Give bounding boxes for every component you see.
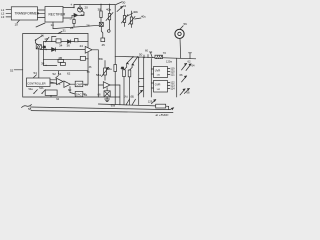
svg-text:10: 10 bbox=[15, 22, 19, 26]
svg-text:DAC: DAC bbox=[76, 93, 82, 97]
svg-text:62: 62 bbox=[67, 72, 71, 76]
svg-text:120a: 120a bbox=[166, 60, 172, 64]
svg-text:44: 44 bbox=[80, 44, 84, 48]
svg-text:(B): (B) bbox=[131, 94, 135, 98]
svg-text:68: 68 bbox=[187, 91, 190, 95]
svg-text:28: 28 bbox=[70, 26, 74, 30]
svg-text:RECTIFIER: RECTIFIER bbox=[49, 13, 67, 17]
svg-text:L3: L3 bbox=[1, 15, 5, 19]
svg-text:54: 54 bbox=[34, 71, 38, 75]
svg-text:54b: 54b bbox=[39, 87, 44, 90]
svg-text:124: 124 bbox=[171, 88, 176, 91]
svg-text:69a: 69a bbox=[111, 105, 116, 108]
svg-text:38: 38 bbox=[98, 8, 102, 12]
svg-text:54: 54 bbox=[58, 72, 62, 76]
svg-text:121: 121 bbox=[171, 74, 176, 77]
svg-text:18: 18 bbox=[44, 37, 48, 41]
svg-text:–: – bbox=[70, 17, 72, 21]
svg-text:45: 45 bbox=[102, 43, 106, 47]
svg-text:OVR: OVR bbox=[155, 83, 161, 87]
svg-text:56: 56 bbox=[184, 22, 188, 26]
svg-text:22: 22 bbox=[81, 13, 85, 17]
svg-text:62: 62 bbox=[149, 50, 152, 54]
svg-text:31: 31 bbox=[63, 29, 67, 33]
svg-text:38: 38 bbox=[41, 62, 45, 66]
svg-text:UVR: UVR bbox=[155, 69, 161, 73]
svg-text:36: 36 bbox=[67, 44, 71, 48]
svg-text:CMP: CMP bbox=[76, 83, 82, 87]
svg-text:34: 34 bbox=[59, 44, 63, 48]
svg-text:4B: 4B bbox=[58, 56, 62, 60]
svg-text:58: 58 bbox=[87, 71, 90, 74]
svg-text:at +5VDC: at +5VDC bbox=[156, 113, 170, 117]
svg-text:62: 62 bbox=[188, 60, 191, 64]
svg-text:64: 64 bbox=[192, 64, 195, 68]
svg-text:52: 52 bbox=[10, 68, 14, 72]
svg-text:52: 52 bbox=[53, 72, 57, 76]
svg-text:+: + bbox=[70, 3, 72, 7]
svg-text:20: 20 bbox=[85, 6, 89, 10]
svg-text:66: 66 bbox=[180, 73, 183, 77]
svg-text:58a: 58a bbox=[96, 73, 101, 77]
svg-text:40b: 40b bbox=[133, 10, 138, 14]
svg-text:59: 59 bbox=[85, 83, 89, 87]
svg-text:14: 14 bbox=[51, 23, 55, 27]
svg-text:36: 36 bbox=[89, 66, 92, 69]
svg-text:40a: 40a bbox=[106, 8, 111, 12]
svg-text:TRANSFORMER: TRANSFORMER bbox=[15, 11, 40, 15]
svg-text:60: 60 bbox=[145, 48, 148, 52]
svg-text:48a: 48a bbox=[107, 67, 112, 71]
svg-text:68: 68 bbox=[98, 92, 101, 96]
svg-text:58: 58 bbox=[28, 107, 32, 111]
svg-text:50: 50 bbox=[139, 53, 143, 57]
svg-text:46: 46 bbox=[121, 67, 124, 70]
svg-text:70: 70 bbox=[163, 51, 167, 55]
svg-text:32: 32 bbox=[123, 4, 127, 8]
svg-text:26: 26 bbox=[86, 23, 90, 27]
svg-text:(A): (A) bbox=[124, 94, 128, 98]
svg-text:58b: 58b bbox=[99, 58, 104, 61]
svg-text:61: 61 bbox=[84, 93, 88, 97]
svg-text:129: 129 bbox=[148, 99, 153, 103]
svg-text:60: 60 bbox=[68, 88, 72, 92]
svg-text:CONTROLLER: CONTROLLER bbox=[27, 82, 45, 86]
svg-text:54a: 54a bbox=[29, 88, 34, 91]
svg-text:64: 64 bbox=[56, 97, 59, 101]
svg-text:40c: 40c bbox=[141, 15, 146, 19]
